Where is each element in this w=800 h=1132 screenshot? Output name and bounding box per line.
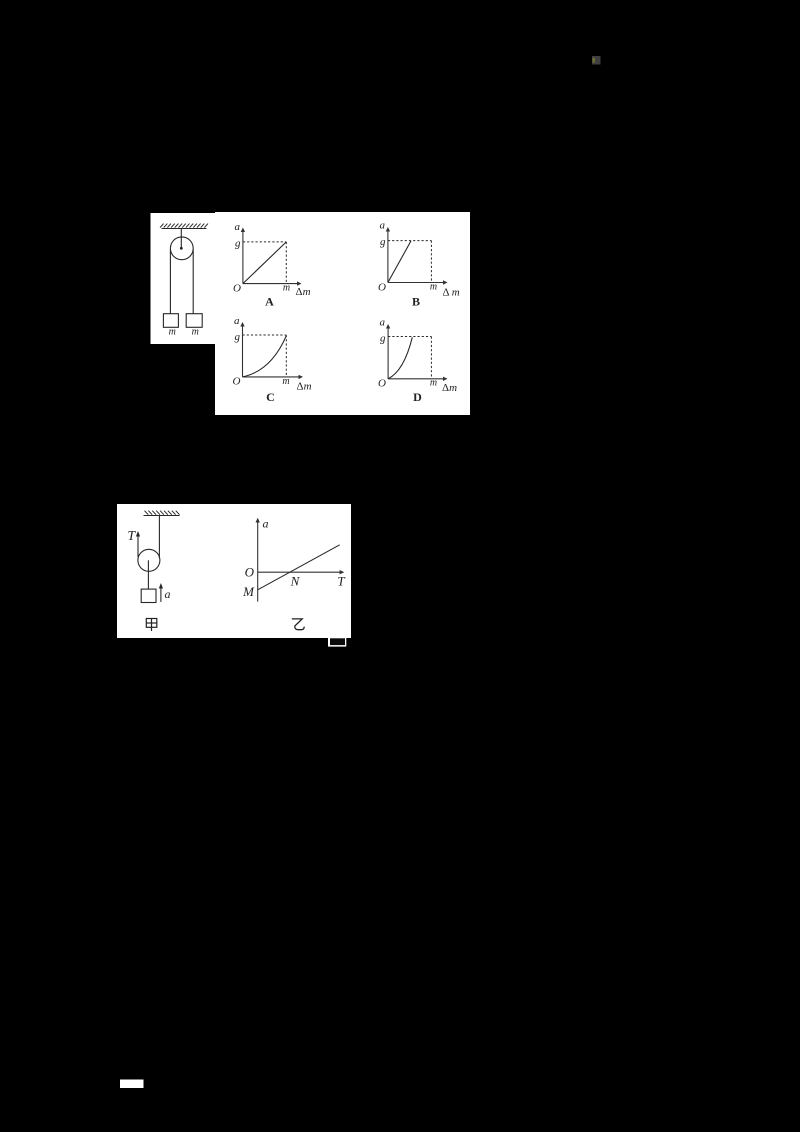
graph yi x-axis bbox=[258, 571, 341, 573]
T arrowhead bbox=[136, 531, 140, 537]
pulley wheel fig1 bbox=[170, 237, 193, 260]
svg-text:a: a bbox=[165, 587, 171, 601]
svg-text:g: g bbox=[235, 238, 241, 250]
string ceiling to pulley right side bbox=[158, 516, 160, 559]
svg-text:a: a bbox=[235, 221, 241, 233]
graph D x arrowhead bbox=[443, 377, 448, 381]
svg-text:C: C bbox=[266, 390, 275, 404]
graph D steep concave curve O to g bbox=[388, 337, 412, 379]
ceiling line fig1 bbox=[162, 228, 207, 230]
graph C x arrowhead bbox=[299, 375, 304, 379]
graph C concave curve O to g bbox=[243, 336, 287, 377]
T arrow line up from pulley left side bbox=[137, 534, 139, 557]
svg-text:O: O bbox=[245, 565, 255, 580]
acceleration arrow line bbox=[160, 586, 162, 602]
figure box: pulley with two masses bbox=[151, 213, 216, 344]
graph A x arrowhead bbox=[297, 281, 302, 285]
svg-text:O: O bbox=[233, 283, 241, 295]
left string bbox=[169, 250, 171, 314]
graph C x-axis bbox=[243, 376, 301, 378]
ceiling hatches fig2 bbox=[145, 511, 180, 515]
svg-text:O: O bbox=[233, 376, 241, 388]
caption yi glyph bbox=[292, 619, 304, 630]
left mass box bbox=[163, 314, 178, 328]
right mass box bbox=[186, 314, 202, 328]
graph B steep line O to g bbox=[388, 241, 411, 283]
svg-text:O: O bbox=[378, 282, 386, 294]
svg-text:m: m bbox=[283, 283, 290, 294]
graph yi x arrowhead bbox=[340, 570, 345, 574]
graph B y arrowhead bbox=[386, 227, 390, 232]
graph A y arrowhead bbox=[241, 228, 245, 233]
svg-text:g: g bbox=[380, 333, 386, 345]
mass box fig2 bbox=[141, 589, 156, 602]
graph A straight line O to g bbox=[243, 242, 286, 284]
graph A dashed g level bbox=[243, 241, 286, 243]
white tab below yi figure bbox=[328, 638, 346, 647]
graph D y-axis bbox=[387, 327, 389, 379]
svg-text:a: a bbox=[380, 220, 386, 232]
svg-text:m: m bbox=[192, 327, 199, 338]
pulley wheel fig2 bbox=[138, 549, 160, 571]
graph C dashed g level bbox=[243, 334, 287, 336]
svg-text:Δm: Δm bbox=[296, 286, 311, 298]
pulley axle dot fig1 bbox=[180, 247, 183, 250]
graph C dashed vertical at m bbox=[285, 335, 287, 377]
graph C y-axis bbox=[242, 325, 244, 377]
right string bbox=[192, 250, 194, 314]
svg-text:a: a bbox=[380, 317, 386, 329]
svg-text:O: O bbox=[378, 378, 386, 390]
svg-text:Δm: Δm bbox=[297, 381, 312, 393]
svg-text:M: M bbox=[242, 584, 255, 599]
svg-text:m: m bbox=[282, 376, 289, 387]
figure box: graphs A B C D bbox=[215, 212, 470, 415]
graph D dashed g level bbox=[388, 336, 431, 338]
svg-text:a: a bbox=[263, 517, 269, 531]
white rect bottom left bbox=[120, 1080, 144, 1089]
black mark in tab bbox=[330, 638, 345, 645]
ceiling hatches fig1 bbox=[160, 224, 208, 228]
svg-text:N: N bbox=[290, 574, 301, 589]
svg-text:Δ m: Δ m bbox=[443, 287, 460, 299]
svg-text:m: m bbox=[169, 327, 176, 338]
grey ui fragment square top right bbox=[592, 56, 601, 65]
svg-text:T: T bbox=[337, 574, 345, 589]
svg-text:Δm: Δm bbox=[442, 382, 457, 394]
graph B dashed vertical at m bbox=[430, 241, 432, 283]
graph yi y arrowhead bbox=[256, 518, 260, 523]
svg-text:m: m bbox=[430, 378, 437, 389]
figure box: pulley T and graph yi bbox=[117, 504, 351, 638]
graph A x-axis bbox=[243, 283, 299, 285]
graph B dashed g level bbox=[388, 240, 432, 242]
svg-text:D: D bbox=[413, 390, 422, 404]
graph D y arrowhead bbox=[386, 324, 390, 329]
a arrowhead bbox=[159, 583, 163, 589]
graph B y-axis bbox=[387, 230, 389, 283]
svg-text:B: B bbox=[412, 295, 420, 309]
ceiling line fig2 bbox=[144, 515, 180, 517]
svg-text:a: a bbox=[234, 315, 240, 327]
graph yi y-axis bbox=[257, 521, 259, 602]
graph A y-axis bbox=[242, 231, 244, 284]
graph B x-axis bbox=[388, 282, 445, 284]
rope ceiling to pulley center bbox=[180, 229, 182, 249]
svg-text:m: m bbox=[430, 282, 437, 293]
caption jia glyph bbox=[146, 619, 157, 632]
graph D x-axis bbox=[388, 378, 444, 380]
rope pulley center to mass bbox=[147, 560, 149, 589]
svg-text:g: g bbox=[380, 236, 386, 248]
svg-text:A: A bbox=[265, 295, 274, 309]
svg-text:g: g bbox=[235, 331, 241, 343]
graph B x arrowhead bbox=[443, 280, 448, 284]
graph C y arrowhead bbox=[240, 322, 244, 327]
graph D dashed vertical at m bbox=[430, 337, 432, 379]
graph yi line M through N bbox=[258, 545, 340, 590]
graph A dashed vertical at m bbox=[285, 242, 287, 284]
